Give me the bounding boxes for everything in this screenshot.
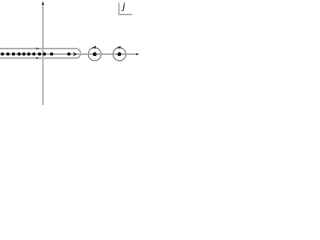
imaginary axis (vertical) — [42, 4, 44, 106]
contour bottom edge — [0, 57, 76, 59]
orientation arrow on circle 1 — [92, 46, 96, 49]
contour right cap — [76, 49, 80, 59]
contour arrow on top edge — [36, 47, 39, 49]
real axis (horizontal) — [0, 53, 137, 55]
svg-text:j: j — [122, 1, 126, 11]
arrow inside contour near cap — [73, 52, 77, 57]
corner mark (plane symbol) — [119, 3, 132, 15]
orientation arrow on circle 2 — [117, 46, 121, 49]
isolated pole dot A — [50, 52, 53, 55]
real axis arrowhead — [136, 53, 139, 55]
contour top edge — [0, 48, 76, 50]
small contour circle 2 — [113, 48, 126, 61]
pole dots (dense string) — [1, 52, 46, 55]
isolated pole dot B — [67, 52, 70, 55]
pole dot in circle 1 — [93, 52, 97, 56]
pole dot in circle 2 — [118, 52, 122, 56]
small contour circle 1 — [88, 48, 101, 61]
imaginary axis arrowhead — [42, 1, 45, 5]
contour arrow on bottom edge — [36, 57, 39, 59]
background — [0, 0, 142, 107]
